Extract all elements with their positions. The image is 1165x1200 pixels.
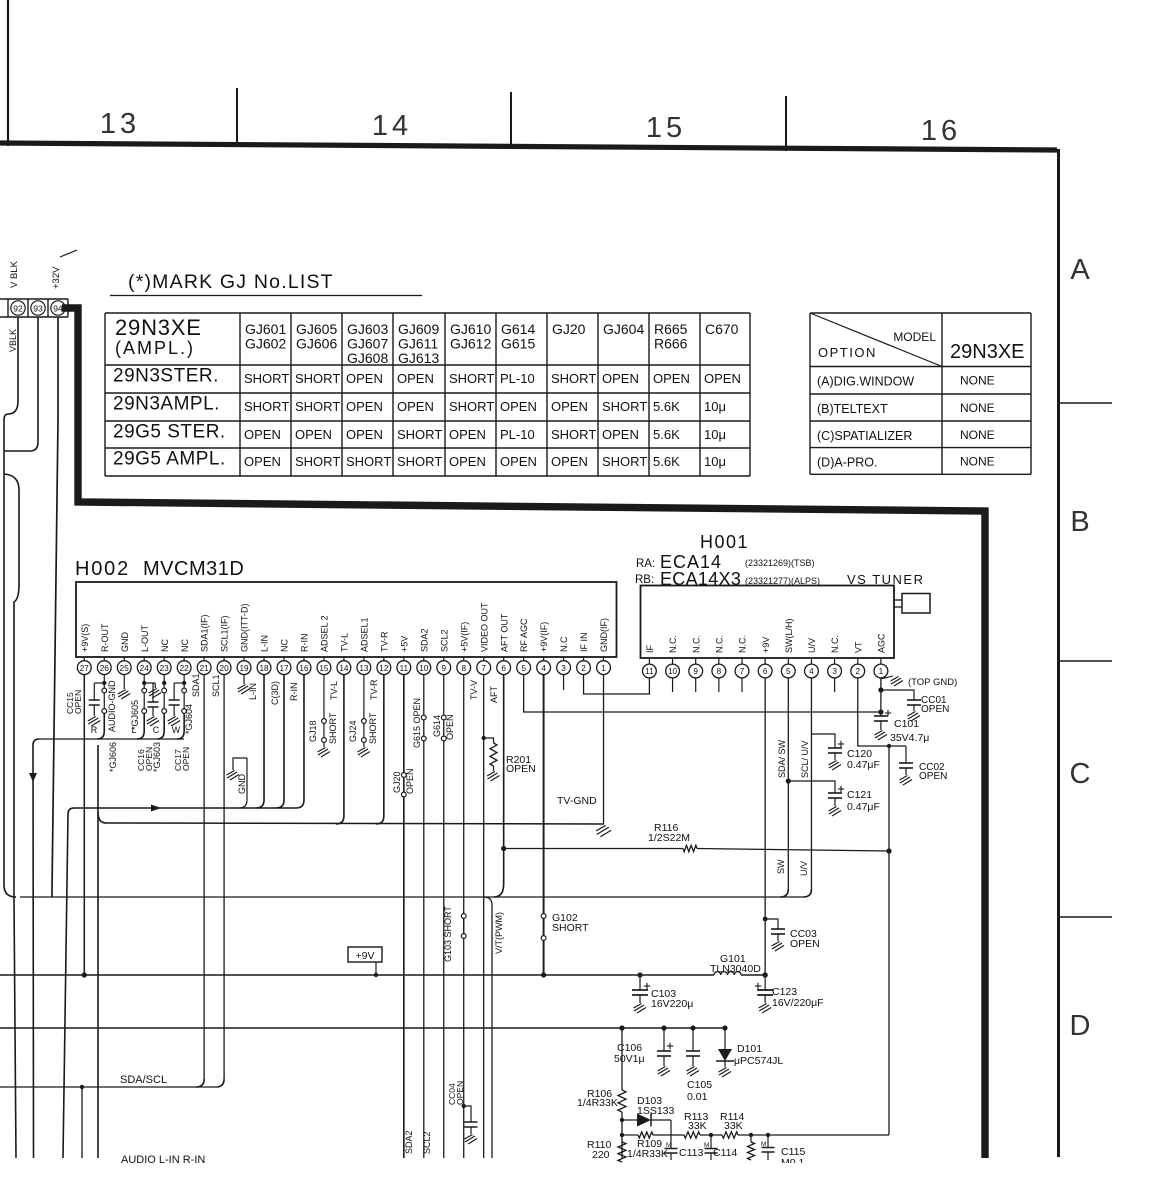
- svg-text:U/V: U/V: [807, 638, 817, 653]
- svg-text:7: 7: [481, 664, 486, 673]
- pin24 right jog to ground: [144, 682, 155, 684]
- svg-text:+9V: +9V: [761, 637, 771, 653]
- svg-text:R-OUT: R-OUT: [100, 623, 110, 652]
- capacitor C105 0.01: [690, 1025, 695, 1030]
- H002 pin 25 GND stub and ground: [123, 675, 125, 690]
- svg-text:1/4R33K: 1/4R33K: [577, 1097, 618, 1109]
- svg-text:OPEN: OPEN: [921, 704, 949, 715]
- svg-text:SHORT: SHORT: [368, 712, 378, 744]
- resistor R201 to ground: [482, 736, 486, 740]
- svg-text:R: R: [91, 725, 98, 735]
- svg-text:TV-GND: TV-GND: [557, 795, 597, 807]
- svg-text:0.47μF: 0.47μF: [847, 801, 880, 813]
- svg-text:OPEN: OPEN: [551, 454, 588, 469]
- svg-text:+5V(IF): +5V(IF): [459, 622, 469, 652]
- svg-text:OPEN: OPEN: [602, 427, 639, 442]
- svg-text:G615 OPEN: G615 OPEN: [412, 698, 422, 748]
- svg-text:D: D: [1070, 1010, 1091, 1042]
- svg-text:OPEN: OPEN: [500, 399, 537, 414]
- svg-text:14: 14: [339, 664, 349, 673]
- svg-text:OPEN: OPEN: [346, 371, 383, 386]
- bus y897 end curve up U/V wire H001 pin4: [803, 889, 811, 897]
- svg-text:GND: GND: [237, 774, 247, 795]
- wire to C121 from SW: [788, 781, 835, 793]
- svg-text:4: 4: [809, 667, 814, 676]
- ground TOP GND: [881, 676, 893, 679]
- svg-text:R666: R666: [654, 336, 688, 352]
- svg-text:8: 8: [461, 664, 466, 673]
- capacitor C121: [838, 788, 844, 790]
- svg-text:OPEN: OPEN: [919, 771, 947, 782]
- svg-text:N.C.: N.C.: [691, 635, 701, 653]
- jumper: [162, 688, 167, 693]
- svg-text:23: 23: [160, 664, 170, 673]
- svg-text:5.6K: 5.6K: [653, 454, 680, 469]
- svg-text:94: 94: [53, 304, 63, 314]
- wire H002 pin17 down to bus: [276, 675, 284, 809]
- svg-text:*GJ603: *GJ603: [152, 742, 162, 772]
- wire H002 pin 22 down to audio bus: [183, 675, 185, 689]
- svg-text:V/T(PWM): V/T(PWM): [494, 912, 504, 954]
- svg-text:+9V: +9V: [356, 950, 375, 962]
- svg-text:SHORT: SHORT: [397, 454, 442, 469]
- svg-text:L-OUT: L-OUT: [140, 624, 150, 652]
- svg-text:N.C.: N.C.: [738, 635, 748, 653]
- capacitor CC04 branch: [462, 1104, 466, 1108]
- svg-text:TV-R: TV-R: [369, 679, 379, 700]
- wire x98 from audio area down crossing buses: [97, 745, 99, 1158]
- svg-text:NONE: NONE: [960, 401, 995, 415]
- svg-text:GJ604: GJ604: [603, 321, 644, 337]
- svg-text:NC: NC: [280, 639, 290, 652]
- wire to CC02: [905, 746, 907, 763]
- svg-text:SDA1: SDA1: [191, 673, 201, 697]
- resistor vertical at x751: [749, 1133, 753, 1137]
- svg-text:MVCM31D: MVCM31D: [143, 558, 244, 580]
- svg-text:OPEN: OPEN: [653, 371, 690, 386]
- capacitor C between 24/23: [152, 683, 154, 702]
- svg-text:8: 8: [717, 667, 722, 676]
- svg-text:6: 6: [763, 667, 768, 676]
- svg-text:A: A: [1070, 254, 1090, 286]
- svg-text:NC: NC: [160, 639, 170, 652]
- jumper GJ604: [182, 688, 187, 693]
- svg-text:SHORT: SHORT: [551, 371, 596, 386]
- svg-text:*GJ604: *GJ604: [184, 704, 194, 734]
- svg-text:33K: 33K: [724, 1120, 743, 1132]
- svg-text:29G5 AMPL.: 29G5 AMPL.: [113, 449, 226, 470]
- arrow down on x33: [29, 773, 37, 782]
- svg-text:N.C.: N.C.: [668, 635, 678, 653]
- svg-text:SHORT: SHORT: [449, 399, 494, 414]
- svg-text:TV-L: TV-L: [329, 681, 339, 700]
- H001 pin4 U/V wire down: [810, 678, 812, 889]
- wire H002 pin9 SCL2 down with G614 jumper: [443, 675, 445, 1159]
- svg-text:SHORT: SHORT: [552, 922, 589, 934]
- svg-text:24: 24: [140, 664, 150, 673]
- svg-text:15: 15: [646, 112, 686, 144]
- svg-text:SHORT: SHORT: [244, 371, 289, 386]
- svg-text:1/4R33K: 1/4R33K: [627, 1148, 668, 1160]
- wire H002 pin16 R-IN down to bus: [296, 675, 304, 809]
- arc from x98 into TV-GND bus: [98, 812, 106, 823]
- left trunk wire down to bus y897: [4, 414, 16, 897]
- grid tick 14/15: [510, 92, 512, 148]
- svg-text:OPEN: OPEN: [346, 399, 383, 414]
- junction dot SW C121 branch: [786, 778, 791, 783]
- grid tick 15/16: [785, 96, 787, 151]
- svg-text:29N3XE: 29N3XE: [950, 341, 1025, 363]
- svg-text:29G5 STER.: 29G5 STER.: [113, 422, 226, 443]
- wire H002 pin10 SDA2 down with G615 jumper: [423, 675, 425, 1159]
- svg-text:μPC574JL: μPC574JL: [734, 1055, 783, 1067]
- junction dot R116 left: [501, 846, 506, 851]
- wire H002 pin27 +9V(S) down to +9V rail: [83, 675, 85, 976]
- page border left edge line: [7, 0, 9, 146]
- svg-text:13: 13: [100, 108, 140, 140]
- connector H002 body: [76, 582, 617, 657]
- svg-text:26: 26: [100, 664, 110, 673]
- svg-text:10: 10: [419, 664, 429, 673]
- svg-text:RA:: RA:: [636, 558, 655, 570]
- wire drop from SDA/SCL line at x82: [80, 1085, 84, 1089]
- svg-text:2: 2: [581, 664, 586, 673]
- option table diagonal: [810, 313, 942, 367]
- svg-text:ADSEL 2: ADSEL 2: [320, 615, 330, 652]
- svg-text:PL-10: PL-10: [500, 427, 535, 442]
- svg-text:33K: 33K: [688, 1120, 707, 1132]
- svg-text:92: 92: [13, 304, 23, 314]
- svg-text:AGC: AGC: [877, 633, 887, 653]
- svg-text:SCL2: SCL2: [422, 1131, 432, 1154]
- long bus y897: [20, 896, 804, 898]
- svg-text:(A)DIG.WINDOW: (A)DIG.WINDOW: [817, 375, 914, 389]
- svg-text:OPEN: OPEN: [500, 454, 537, 469]
- svg-text:1: 1: [879, 667, 884, 676]
- svg-text:+32V: +32V: [51, 266, 62, 289]
- capacitor C106 50V1u: [661, 1025, 666, 1030]
- svg-text:0.01: 0.01: [687, 1091, 708, 1103]
- svg-text:29N3XE: 29N3XE: [115, 315, 202, 340]
- svg-text:SHORT: SHORT: [295, 454, 340, 469]
- svg-text:TV-V: TV-V: [469, 680, 479, 700]
- svg-text:7: 7: [740, 667, 745, 676]
- wire H002 pin 15 with jumper GJ18 SHORT to ground: [323, 675, 325, 719]
- svg-text:(23321277)(ALPS): (23321277)(ALPS): [745, 576, 820, 586]
- svg-text:C: C: [153, 725, 160, 735]
- connector cells 92 93 94: [0, 298, 68, 300]
- H001 NC stub: [672, 678, 674, 692]
- GND bracket wire: [233, 758, 247, 770]
- capacitor CC02 OPEN: [899, 762, 913, 764]
- jumper GJ605: [142, 688, 147, 693]
- svg-text:6: 6: [501, 664, 506, 673]
- svg-text:10μ: 10μ: [704, 454, 726, 469]
- svg-text:C114: C114: [713, 1147, 737, 1159]
- wire from pin 93 joining trunk: [4, 317, 38, 451]
- svg-text:GND(IF): GND(IF): [599, 618, 609, 652]
- wire H002 pin 24 down to audio bus: [143, 675, 145, 689]
- svg-text:U/V: U/V: [799, 861, 809, 876]
- TV-GND ground symbol: [596, 825, 611, 836]
- svg-text:11: 11: [400, 664, 409, 673]
- svg-text:OPEN: OPEN: [449, 427, 486, 442]
- svg-text:(TOP GND): (TOP GND): [908, 677, 957, 688]
- svg-text:18: 18: [259, 664, 269, 673]
- svg-text:OPEN: OPEN: [244, 454, 281, 469]
- svg-text:1SS133: 1SS133: [637, 1105, 675, 1117]
- svg-text:OPEN: OPEN: [455, 1081, 465, 1105]
- wire H002 pin7 VIDEO OUT / TV-V down: [483, 675, 485, 1159]
- svg-text:AFT OUT: AFT OUT: [499, 613, 509, 652]
- svg-text:L-IN: L-IN: [260, 635, 270, 652]
- svg-text:10μ: 10μ: [704, 399, 726, 414]
- svg-text:SCL2: SCL2: [439, 629, 449, 652]
- svg-text:OPEN: OPEN: [602, 371, 639, 386]
- svg-text:C113: C113: [679, 1147, 703, 1159]
- svg-text:1: 1: [601, 664, 606, 673]
- jumper GJ606: [102, 688, 107, 693]
- page border right edge: [1057, 149, 1060, 1157]
- H001 pin5 SW(L/H) wire down: [787, 678, 789, 889]
- svg-text:21: 21: [200, 664, 210, 673]
- svg-text:SHORT: SHORT: [602, 454, 647, 469]
- svg-text:12: 12: [379, 664, 389, 673]
- wire vertical x33 audio bus down: [33, 739, 39, 1158]
- wire H002 pin14 TV-L down to TV-GND bus: [336, 675, 344, 825]
- wire diagonal into connector: [60, 250, 77, 257]
- svg-text:SDA2: SDA2: [404, 1130, 414, 1154]
- wire H002 pin11 +5V down with GJ20 jumper: [403, 675, 405, 1159]
- svg-text:GJ24: GJ24: [348, 720, 358, 742]
- svg-text:SDA2: SDA2: [419, 628, 429, 652]
- svg-text:(*)MARK GJ No.LIST: (*)MARK GJ No.LIST: [128, 271, 334, 293]
- wire H002 pin3 NC stub: [563, 675, 565, 691]
- svg-text:MODEL: MODEL: [893, 330, 936, 344]
- svg-text:93: 93: [33, 304, 43, 314]
- svg-text:N.C: N.C: [559, 636, 569, 652]
- bus y897 branch down V/T(PWM): [484, 897, 492, 1158]
- svg-text:OPEN: OPEN: [506, 763, 536, 775]
- wire H002 pin20 SCL1 down: [223, 675, 225, 1080]
- svg-text:SHORT: SHORT: [397, 427, 442, 442]
- coil G101 TLN3040D: [714, 972, 741, 975]
- svg-text:R-IN: R-IN: [289, 683, 299, 702]
- svg-text:ADSEL1: ADSEL1: [359, 617, 369, 652]
- svg-text:OPEN: OPEN: [449, 454, 486, 469]
- wire jog to CC03: [765, 919, 778, 929]
- R113 33K on y1135 line: [684, 1132, 700, 1138]
- svg-text:SDA1(IF): SDA1(IF): [200, 614, 210, 652]
- svg-text:C670: C670: [705, 321, 739, 337]
- svg-text:11: 11: [645, 667, 654, 676]
- wire H002 pin2 IF IN to H001 pin11: [584, 675, 650, 695]
- page border frame top: [0, 143, 1057, 150]
- capacitor C114: [709, 1133, 713, 1137]
- svg-text:C101: C101: [894, 718, 919, 730]
- wire H002 pin5 RF AGC right to C101 node: [524, 675, 881, 713]
- TV-GND bus y824: [105, 823, 604, 824]
- svg-text:+9V(IF): +9V(IF): [539, 622, 549, 652]
- svg-text:OPEN: OPEN: [397, 399, 434, 414]
- VT vertical down to R114 node: [888, 746, 890, 1135]
- svg-text:16: 16: [921, 115, 961, 147]
- capacitor C103 electrolytic 16V220u: [637, 972, 642, 977]
- svg-text:VT: VT: [853, 641, 863, 653]
- H001 pin6 +9V wire down to G101 node: [764, 678, 766, 975]
- svg-text:N.C.: N.C.: [830, 635, 840, 653]
- svg-text:OPEN: OPEN: [405, 768, 415, 794]
- svg-text:19: 19: [240, 664, 250, 673]
- svg-text:14: 14: [372, 110, 412, 142]
- svg-text:SHORT: SHORT: [295, 371, 340, 386]
- svg-text:*GJ606: *GJ606: [108, 742, 118, 772]
- svg-text:16: 16: [299, 664, 309, 673]
- svg-text:16V/220μF: 16V/220μF: [772, 997, 824, 1009]
- svg-text:W: W: [172, 725, 181, 735]
- wire to C120 from U/V: [811, 734, 835, 748]
- R114 33K: [700, 1134, 722, 1136]
- svg-text:L-IN: L-IN: [248, 683, 258, 700]
- svg-text:RF AGC: RF AGC: [519, 618, 529, 652]
- +9V rail y975: [0, 974, 714, 976]
- svg-text:OPEN: OPEN: [397, 371, 434, 386]
- svg-text:3: 3: [832, 667, 837, 676]
- svg-text:35V4.7μ: 35V4.7μ: [890, 732, 929, 744]
- H001 NC stub: [834, 678, 836, 692]
- svg-text:TV-L: TV-L: [340, 633, 350, 652]
- svg-text:+9V(S): +9V(S): [80, 624, 90, 652]
- svg-text:5: 5: [521, 664, 526, 673]
- wire to CC01: [881, 690, 914, 700]
- svg-text:SHORT: SHORT: [346, 454, 391, 469]
- svg-text:29N3STER.: 29N3STER.: [113, 366, 219, 387]
- svg-text:TV-R: TV-R: [379, 631, 389, 652]
- resistor R110 220: [618, 1142, 626, 1162]
- svg-text:SW: SW: [776, 859, 786, 874]
- svg-text:27: 27: [80, 664, 90, 673]
- svg-text:*GJ605: *GJ605: [130, 700, 140, 730]
- svg-text:(B)TELTEXT: (B)TELTEXT: [817, 402, 888, 416]
- svg-text:(AMPL.): (AMPL.): [115, 338, 195, 358]
- heavy section boundary from connector 94: [62, 308, 985, 1158]
- svg-text:3: 3: [561, 664, 566, 673]
- svg-text:OPEN: OPEN: [551, 399, 588, 414]
- wire x247 into bus y808: [239, 758, 247, 808]
- svg-text:H001: H001: [700, 532, 749, 552]
- svg-text:25: 25: [120, 664, 130, 673]
- svg-text:GJ613: GJ613: [398, 350, 439, 366]
- grid row tick A/B: [1058, 402, 1112, 404]
- R109 zigzag on y1135: [620, 1133, 624, 1137]
- wire H002 pin 23 down to audio bus: [163, 675, 165, 689]
- wire H002 pin8 +5V(IF) down with G103 jumper: [463, 675, 465, 1159]
- svg-text:GJ608: GJ608: [347, 350, 388, 366]
- capacitor C120: [838, 743, 844, 745]
- wire H002 pin4 +9V(IF) down to +9V rail with G102 jumper: [543, 675, 545, 976]
- capacitor at pin 26: [94, 682, 104, 684]
- connector H001 body: [641, 586, 895, 659]
- svg-text:B: B: [1070, 506, 1089, 538]
- svg-text:SHORT: SHORT: [449, 371, 494, 386]
- svg-text:GND(ITT-D): GND(ITT-D): [240, 604, 250, 653]
- svg-text:C(3D): C(3D): [270, 681, 280, 705]
- wire from pin 92 into left trunk: [8, 317, 18, 414]
- svg-text:IF IN: IF IN: [579, 633, 589, 653]
- capacitor C115 M0.1: [766, 1133, 770, 1137]
- svg-text:OPEN: OPEN: [790, 938, 820, 950]
- svg-text:OPEN: OPEN: [181, 747, 191, 771]
- wire H002 pin12 TV-R down to TV-GND bus: [376, 675, 384, 825]
- svg-text:OPEN: OPEN: [445, 714, 455, 740]
- svg-text:G614: G614: [432, 715, 442, 737]
- svg-text:H002: H002: [75, 558, 130, 580]
- svg-text:GJ18: GJ18: [308, 720, 318, 742]
- grid tick 13/14: [236, 88, 238, 144]
- svg-text:G615: G615: [501, 336, 535, 352]
- svg-text:SCL1(IF): SCL1(IF): [220, 615, 230, 652]
- svg-text:9: 9: [693, 667, 698, 676]
- junction dot R116 right: [886, 848, 891, 853]
- svg-text:IF: IF: [645, 644, 655, 653]
- svg-text:NONE: NONE: [960, 374, 995, 388]
- svg-text:2: 2: [855, 667, 860, 676]
- svg-text:5.6K: 5.6K: [653, 399, 680, 414]
- svg-text:GJ20: GJ20: [552, 321, 586, 337]
- svg-text:GND: GND: [120, 632, 130, 653]
- svg-text:10: 10: [668, 667, 678, 676]
- svg-text:NC: NC: [180, 639, 190, 652]
- svg-text:29N3AMPL.: 29N3AMPL.: [113, 394, 220, 415]
- svg-text:RB:: RB:: [635, 574, 654, 586]
- wire +32V from pin 94 down to bus y897: [52, 317, 58, 897]
- svg-text:22: 22: [180, 664, 190, 673]
- svg-text:AUDIO-GND: AUDIO-GND: [107, 680, 117, 732]
- wire H002 pin1 GND(IF) down to TV-GND ground: [603, 675, 605, 825]
- svg-text:C121: C121: [847, 789, 872, 801]
- H001 NC stub: [741, 678, 743, 692]
- svg-text:D101: D101: [737, 1043, 762, 1055]
- svg-text:GJ20: GJ20: [392, 771, 402, 793]
- svg-text:10μ: 10μ: [704, 427, 726, 442]
- H001 tab connector: [894, 599, 902, 601]
- svg-text:9: 9: [441, 664, 446, 673]
- resistor R116 1/2S22M line: [504, 848, 683, 850]
- diode D103 1SS133: [620, 1118, 624, 1122]
- svg-text:SCL1: SCL1: [211, 674, 221, 697]
- grid row tick C/D: [1058, 916, 1112, 918]
- bus y808 with arrow: [63, 808, 74, 1158]
- svg-text:R-IN: R-IN: [300, 634, 310, 653]
- svg-text:OPEN: OPEN: [704, 371, 741, 386]
- wire H002 pin 13 with jumper GJ24 SHORT to ground: [363, 675, 365, 719]
- svg-text:G103 SHORT: G103 SHORT: [443, 906, 453, 962]
- svg-text:GJ602: GJ602: [245, 336, 286, 352]
- junction dot pin27 at +9V rail: [82, 972, 87, 977]
- svg-text:SHORT: SHORT: [551, 427, 596, 442]
- option table grid: [810, 312, 1031, 314]
- bus y897 up-branch SW wire H001 pin5: [780, 889, 788, 897]
- svg-text:GJ612: GJ612: [450, 336, 491, 352]
- wire H002 pin18 L-IN down to bus: [256, 675, 264, 809]
- svg-text:+5V: +5V: [399, 636, 409, 652]
- svg-text:13: 13: [359, 664, 369, 673]
- svg-text:SW(L/H): SW(L/H): [784, 619, 794, 654]
- svg-text:SHORT: SHORT: [328, 712, 338, 744]
- H002 pin19 GND(ITT-D) stub and ground: [243, 675, 245, 685]
- svg-text:15: 15: [319, 664, 329, 673]
- svg-text:SHORT: SHORT: [295, 399, 340, 414]
